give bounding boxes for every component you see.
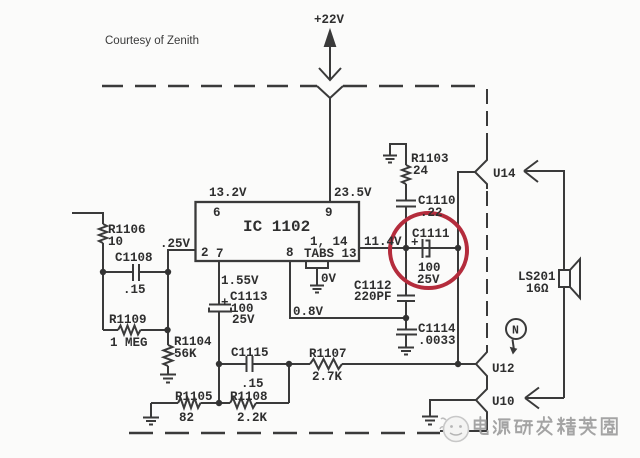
svg-text:1 MEG: 1 MEG — [110, 336, 148, 350]
svg-text:25V: 25V — [232, 313, 255, 327]
svg-text:Courtesy of Zenith: Courtesy of Zenith — [105, 35, 199, 47]
svg-text:2.2K: 2.2K — [237, 411, 268, 425]
svg-text:0V: 0V — [321, 272, 337, 286]
svg-text:C1115: C1115 — [231, 346, 269, 360]
svg-text:9: 9 — [325, 206, 333, 220]
svg-text:+: + — [411, 236, 419, 250]
svg-text:23.5V: 23.5V — [334, 186, 372, 200]
svg-text:TABS 13: TABS 13 — [304, 247, 357, 261]
svg-text:8: 8 — [286, 246, 294, 260]
svg-text:.15: .15 — [241, 377, 264, 391]
svg-text:U14: U14 — [493, 167, 516, 181]
svg-text:16Ω: 16Ω — [526, 282, 549, 296]
svg-text:0.8V: 0.8V — [293, 305, 324, 319]
svg-text:7: 7 — [216, 247, 224, 261]
svg-text:56K: 56K — [174, 347, 197, 361]
svg-text:13.2V: 13.2V — [209, 186, 247, 200]
svg-text:U10: U10 — [492, 395, 515, 409]
svg-text:.15: .15 — [123, 283, 146, 297]
svg-text:2.7K: 2.7K — [312, 370, 343, 384]
svg-text:+: + — [221, 296, 229, 310]
svg-text:IC 1102: IC 1102 — [243, 218, 310, 236]
svg-text:220PF: 220PF — [354, 290, 392, 304]
svg-text:.25V: .25V — [160, 237, 191, 251]
svg-text:.22: .22 — [420, 206, 443, 220]
svg-text:R1107: R1107 — [309, 347, 347, 361]
svg-text:82: 82 — [179, 411, 194, 425]
svg-text:6: 6 — [213, 206, 221, 220]
svg-text:11.4V: 11.4V — [364, 235, 402, 249]
svg-text:1.55V: 1.55V — [221, 274, 259, 288]
svg-text:C1108: C1108 — [115, 251, 153, 265]
svg-text:25V: 25V — [417, 273, 440, 287]
svg-text:+22V: +22V — [314, 13, 345, 27]
svg-text:10: 10 — [108, 235, 123, 249]
svg-text:2: 2 — [201, 246, 209, 260]
svg-text:U12: U12 — [492, 362, 515, 376]
svg-text:.0033: .0033 — [418, 334, 456, 348]
svg-text:R1105: R1105 — [175, 390, 213, 404]
svg-text:24: 24 — [413, 164, 429, 178]
svg-text:R1108: R1108 — [230, 390, 268, 404]
svg-text:N: N — [512, 325, 519, 338]
svg-text:R1109: R1109 — [109, 313, 147, 327]
